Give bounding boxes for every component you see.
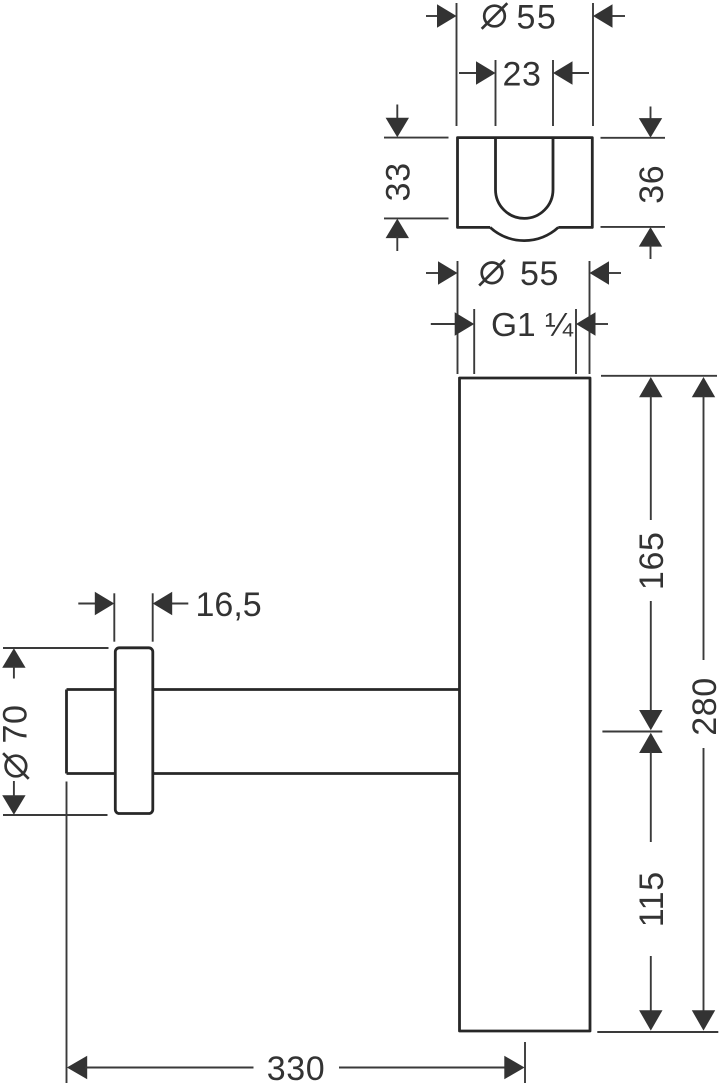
dim 330: left line segment: [85, 1067, 254, 1069]
dim 115: lower line segment: [650, 956, 652, 1013]
dim 33: bottom extension line: [384, 217, 449, 219]
dim 16,5: extension line right: [152, 593, 154, 641]
dim 330: right line segment: [339, 1067, 507, 1069]
svg-text:36: 36: [633, 165, 671, 204]
dim 23: right arrow + tail: [570, 72, 589, 74]
pipe left section top edge: [67, 688, 116, 691]
dim 330: right arrow: [504, 1056, 524, 1079]
pipe right section bottom edge: [153, 772, 460, 775]
pipe left end cap: [65, 690, 68, 774]
svg-text:115: 115: [633, 871, 671, 927]
bottom extension line (body bottom): [597, 1031, 718, 1033]
dim 16,5: right arrow + tail: [170, 603, 188, 605]
dim Ø70: top arrow + tail: [2, 648, 25, 668]
dim 165: top arrow: [639, 377, 662, 397]
svg-text:33: 33: [380, 162, 418, 201]
middle extension line (pipe axis): [602, 731, 662, 733]
dim Ø55 top: extension line right: [592, 3, 594, 126]
dim Ø55 top: right arrow + tail: [610, 15, 625, 17]
dim Ø70: label (rotated, with diameter symbol): [0, 704, 34, 778]
dim 33: bottom arrow + tail: [386, 219, 409, 239]
dim Ø70: top extension line: [3, 647, 109, 649]
dim G1 1/4: left arrow + tail: [431, 323, 457, 325]
dim 36: top tail + arrow: [650, 107, 652, 123]
dim 115: upper line segment: [650, 751, 652, 842]
dim 280: upper line segment: [703, 396, 705, 660]
fitting bottom bulge arc: [490, 227, 558, 240]
svg-text:330: 330: [267, 1050, 326, 1085]
pipe right section top edge: [153, 688, 460, 691]
fitting body rectangle (bottom edge broken by bulge arc): [458, 138, 593, 228]
dim 165: upper line segment: [650, 396, 652, 520]
dim 36: bottom extension line: [601, 226, 666, 228]
dim Ø55 bottom: diameter symbol: [479, 260, 505, 286]
svg-text:G1 ¼: G1 ¼: [491, 307, 574, 344]
body rectangle: [460, 378, 591, 1031]
dim 16,5: left arrow + tail: [78, 603, 97, 605]
fitting inner U cavity: [496, 138, 554, 219]
top extension line (body top): [601, 375, 717, 377]
dim 165: lower line segment: [650, 601, 652, 712]
dim 16,5: extension line left: [113, 593, 115, 641]
dim Ø55 bottom: right arrow + tail: [606, 272, 621, 274]
dim 280: top arrow: [692, 377, 715, 397]
dim 36: top extension line: [601, 137, 666, 139]
pipe left section bottom edge: [67, 772, 116, 775]
dim Ø55 top: diameter symbol: [482, 3, 508, 29]
dim 36: bottom arrow + tail: [639, 227, 662, 247]
dim G1 1/4: extension line right: [575, 309, 577, 374]
dim 280: lower line segment: [703, 748, 705, 1013]
dim 165: bottom arrow: [639, 710, 662, 730]
svg-text:55: 55: [520, 255, 559, 293]
dim 23: left arrow + tail: [459, 72, 479, 74]
dim 115: bottom arrow: [639, 1010, 662, 1030]
dim 23: extension line left: [495, 60, 497, 126]
wall flange (rounded rectangle): [115, 648, 153, 814]
dim 23: extension line right: [552, 60, 554, 126]
svg-text:70: 70: [0, 704, 34, 743]
svg-text:55: 55: [517, 0, 558, 36]
dim Ø55 bottom: extension line right: [589, 261, 591, 374]
dim 115: top arrow: [639, 733, 662, 753]
dim Ø55 bottom: extension line left: [457, 261, 459, 374]
dim Ø70: bottom extension line: [3, 814, 108, 816]
dim G1 1/4: extension line left: [473, 309, 475, 374]
dim Ø55 bottom: left arrow + tail: [426, 272, 441, 274]
svg-text:23: 23: [502, 55, 541, 93]
dim Ø55 top: extension line left: [456, 3, 458, 126]
dim 330: left extension line: [66, 782, 68, 1084]
dim G1 1/4: right arrow + tail: [593, 323, 608, 325]
svg-text:165: 165: [633, 532, 671, 591]
dim 33: top tail + arrow: [396, 105, 398, 121]
dim 330: left arrow: [67, 1056, 87, 1079]
dim 33: top extension line: [384, 137, 449, 139]
svg-text:16,5: 16,5: [196, 586, 262, 624]
svg-text:280: 280: [686, 677, 720, 736]
dim Ø70: bottom arrow + tail: [2, 795, 25, 815]
dim 280: bottom arrow: [692, 1010, 715, 1030]
dim Ø55 top: left arrow + tail: [426, 15, 440, 17]
dim 330: right extension line: [524, 1042, 526, 1083]
